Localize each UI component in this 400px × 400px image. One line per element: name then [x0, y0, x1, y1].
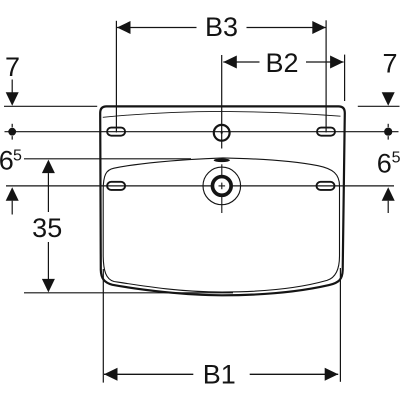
left fixing dot — [8, 128, 16, 136]
deck ridge line — [103, 111, 341, 117]
right fixing dot — [384, 128, 392, 136]
middle-right fixing slot — [317, 182, 335, 190]
B1 right extension line — [339, 268, 341, 382]
dimension B3 line — [117, 27, 197, 29]
svg-text:7: 7 — [5, 52, 20, 82]
drain outer circle — [203, 167, 241, 205]
dim 65 left arrow — [6, 187, 19, 201]
B2 right extension line — [344, 55, 346, 101]
dim 65 right arrow — [382, 187, 395, 201]
dim 65 left: upper reference line — [24, 158, 191, 160]
dimension B1 line — [104, 373, 193, 375]
B3 right extension line — [325, 20, 327, 132]
fixing-holes center line — [5, 131, 399, 133]
B2 left extension / faucet centerline — [221, 55, 223, 149]
overflow mark — [214, 158, 230, 162]
middle-left fixing slot — [107, 182, 125, 190]
dim 35 up arrow — [42, 160, 55, 174]
drain center cross — [219, 185, 226, 187]
dim 7 left: reference line — [4, 105, 97, 107]
dim 7 right arrow — [382, 92, 395, 106]
faucet hole — [214, 125, 230, 141]
svg-text:B1: B1 — [203, 359, 236, 389]
middle slots center line — [6, 185, 394, 187]
svg-text:6: 6 — [0, 146, 14, 176]
drain vertical centerline — [221, 164, 223, 213]
svg-text:5: 5 — [13, 148, 22, 165]
top-left fixing slot — [107, 128, 125, 136]
dimension B2 line — [223, 61, 259, 63]
B1 right arrow — [325, 368, 339, 381]
svg-text:B2: B2 — [265, 48, 298, 78]
drain inner circle — [212, 177, 231, 196]
svg-text:5: 5 — [392, 150, 400, 167]
B3 left extension line — [115, 21, 117, 133]
basin outer shell — [100, 106, 345, 295]
B2 left arrow — [223, 56, 237, 69]
B3 left arrow — [117, 21, 131, 34]
B3 right arrow — [312, 21, 326, 34]
B1 left extension line — [102, 269, 104, 383]
dim 7 left arrow — [6, 92, 19, 106]
inner bowl outline — [103, 158, 339, 292]
svg-text:6: 6 — [377, 149, 392, 179]
svg-text:7: 7 — [382, 49, 397, 79]
B1 left arrow — [104, 368, 118, 381]
svg-text:35: 35 — [32, 213, 62, 243]
dim 7 left stem — [11, 80, 13, 93]
dim 7 right: reference line — [358, 105, 400, 107]
svg-text:B3: B3 — [205, 12, 238, 42]
dim 35 down arrow — [42, 279, 55, 293]
top-right fixing slot — [317, 128, 335, 136]
B2 right arrow — [330, 56, 344, 69]
dim 35: bottom reference line — [24, 292, 233, 294]
